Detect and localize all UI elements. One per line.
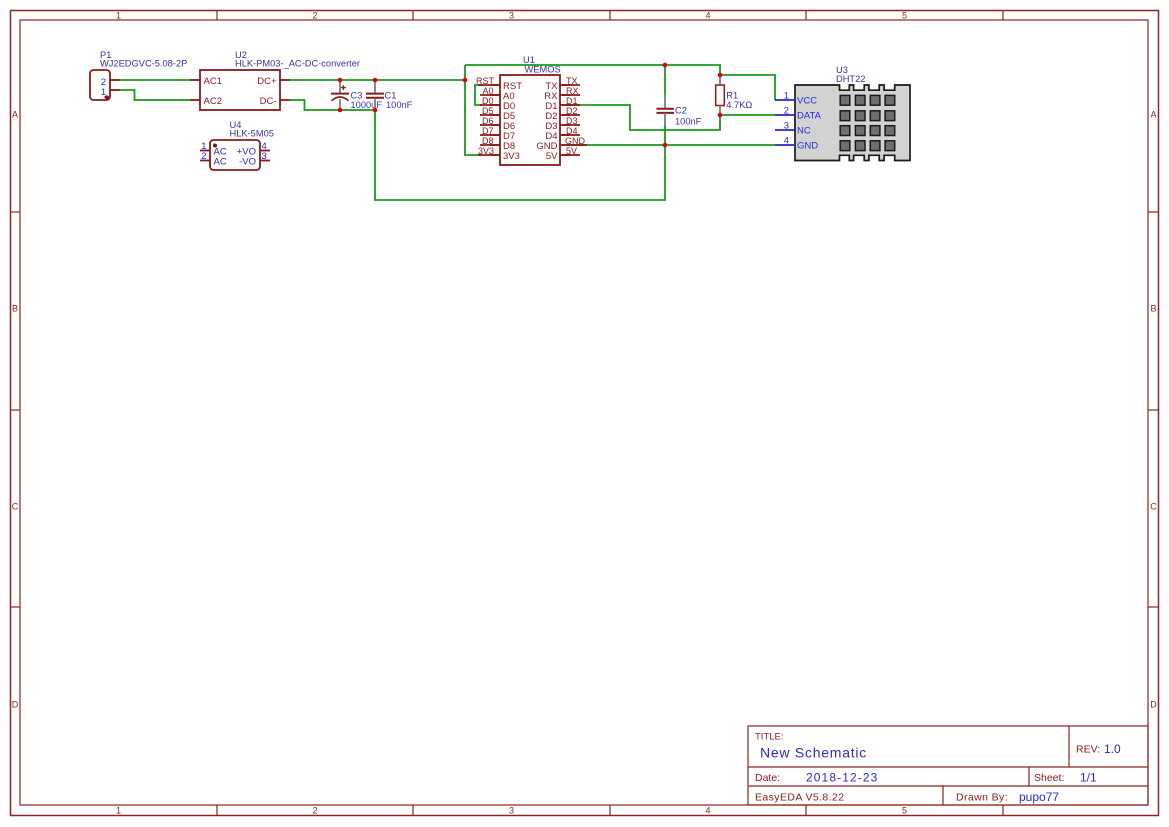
svg-text:DC+: DC+ [257, 76, 277, 87]
svg-text:5: 5 [902, 806, 907, 816]
svg-text:NC: NC [797, 126, 811, 137]
capacitor C3 (polarized) [331, 81, 382, 110]
C1 plate 2 [366, 97, 384, 99]
net label D1 [562, 96, 580, 106]
svg-text:1000uF: 1000uF [351, 100, 383, 110]
net label D2 [562, 106, 580, 116]
svg-text:2: 2 [312, 806, 317, 816]
wire U1.RST to U1.D0 [475, 85, 482, 105]
svg-text:4: 4 [705, 806, 710, 816]
net label TX [562, 76, 580, 86]
svg-text:5V: 5V [546, 151, 558, 162]
JUNCTIONS [338, 63, 723, 148]
pin DC- stub [280, 99, 290, 101]
C3 top plate [331, 93, 349, 95]
net label D8 [480, 136, 500, 146]
svg-text:Sheet:: Sheet: [1034, 772, 1064, 784]
sensor U3 DHT22 [775, 65, 910, 161]
net label RST [476, 76, 500, 86]
C2 plate 1 [657, 108, 675, 110]
U3 body with castellated edges [795, 85, 910, 161]
pin 2 stub P1 [110, 79, 120, 81]
WIRES [120, 65, 775, 200]
R1 top lead [719, 76, 721, 85]
C1 plate 1 [366, 93, 384, 95]
svg-text:3: 3 [509, 10, 514, 20]
C3 bottom lead [339, 99, 341, 109]
svg-text:AC1: AC1 [204, 76, 222, 87]
svg-text:EasyEDA V5.8.22: EasyEDA V5.8.22 [755, 792, 844, 804]
svg-text:Drawn By:: Drawn By: [956, 792, 1008, 804]
svg-text:3: 3 [784, 121, 789, 132]
svg-text:5: 5 [902, 10, 907, 20]
junction DC-/C1 bottom [373, 108, 378, 113]
pin 3 stub NC [775, 129, 795, 131]
svg-text:B: B [12, 304, 18, 314]
net label D7 [480, 126, 500, 136]
svg-text:AC: AC [214, 157, 227, 168]
wire U1.D1 to R1 bottom [570, 105, 720, 130]
junction DC+/5V vertical [463, 78, 468, 83]
net label 3V3 [478, 146, 500, 156]
net label D4 [562, 126, 580, 136]
svg-text:D: D [1150, 700, 1157, 710]
C2 bottom lead [664, 113, 666, 125]
net label A0 [480, 86, 500, 96]
junction GND rail / C2 bottom [663, 143, 668, 148]
C1 top lead [374, 81, 376, 93]
net label D0 [480, 96, 500, 106]
AC-DC converter U2 [190, 50, 360, 110]
junction R1 top / VCC tap [718, 73, 723, 78]
svg-text:A: A [1150, 110, 1156, 120]
svg-text:AC2: AC2 [204, 96, 222, 107]
svg-text:100nF: 100nF [675, 117, 702, 127]
P1 polarity dot [104, 95, 109, 99]
svg-text:C: C [1150, 502, 1157, 512]
right pin stubs TX RX D1 D2 D3 D4 GND 5V [560, 85, 570, 155]
svg-text:1: 1 [116, 10, 121, 20]
svg-text:Date:: Date: [755, 772, 780, 784]
C3 curved plate [332, 97, 349, 101]
wire U1.GND to U3.GND [570, 144, 775, 146]
wire C1 bottom to GND rail [375, 110, 665, 200]
pin AC2 stub [190, 99, 200, 101]
svg-text:DC-: DC- [260, 96, 277, 107]
wire top 5V rail to R1 [465, 65, 720, 75]
svg-text:D: D [12, 700, 19, 710]
net label D3 [562, 116, 580, 126]
wire P1.2 to U2.AC1 [120, 79, 190, 81]
svg-text:pupo77: pupo77 [1019, 790, 1059, 804]
wire U2.DC- to C3/C1 bottom [290, 100, 375, 110]
svg-text:1.0: 1.0 [1104, 742, 1121, 756]
C3 plus sign [341, 85, 346, 90]
wire U2.DC+ to C3/C1/5V rail [290, 79, 465, 81]
pin 3 stub U4 [260, 160, 270, 162]
svg-text:DATA: DATA [797, 111, 822, 122]
net label D5 [480, 106, 500, 116]
junction R1 bottom / DATA tap [718, 113, 723, 118]
svg-text:C: C [12, 502, 19, 512]
U4 pin1 dot [213, 144, 217, 148]
svg-text:4: 4 [705, 10, 710, 20]
svg-text:4: 4 [784, 136, 789, 147]
svg-text:WJ2EDGVC-5.08-2P: WJ2EDGVC-5.08-2P [100, 59, 187, 69]
C2 plate 2 [657, 112, 675, 114]
wire R1 bottom to U3.DATA [720, 114, 775, 116]
wire C2 vertical top [664, 65, 666, 95]
svg-text:2: 2 [784, 106, 789, 117]
junction DC+/C1 [373, 78, 378, 83]
svg-text:New Schematic: New Schematic [760, 745, 867, 761]
svg-text:WEMOS: WEMOS [525, 65, 561, 75]
junction DC+/C3 [338, 78, 343, 83]
junction DC-/C3 bottom [338, 108, 343, 113]
wire C2 vertical bottom [664, 125, 666, 145]
svg-text:VCC: VCC [797, 96, 817, 107]
svg-text:GND: GND [797, 141, 818, 152]
pin 1 stub U4 [200, 150, 210, 152]
pin 1 stub VCC [775, 99, 795, 101]
svg-text:1: 1 [784, 91, 789, 102]
pin 2 stub U4 [200, 160, 210, 162]
svg-text:-VO: -VO [239, 157, 256, 168]
R1 bottom lead [719, 106, 721, 115]
svg-text:100nF: 100nF [386, 100, 413, 110]
AC-DC module U4 [200, 120, 274, 170]
svg-text:2018-12-23: 2018-12-23 [806, 771, 878, 785]
svg-text:REV:: REV: [1076, 744, 1100, 756]
svg-text:3V3: 3V3 [503, 151, 520, 162]
svg-text:2: 2 [312, 10, 317, 20]
svg-text:U1: U1 [523, 55, 535, 65]
pin DC+ stub [280, 79, 290, 81]
net label RX [562, 86, 580, 96]
svg-text:2: 2 [201, 151, 206, 162]
svg-text:B: B [1150, 304, 1156, 314]
U3 grid squares [840, 95, 894, 150]
wire 5V vertical at x465 to 3V3 [465, 65, 481, 155]
R1 body [716, 85, 725, 106]
capacitor C2 [657, 95, 702, 127]
connector P1 [90, 50, 187, 100]
svg-text:C3: C3 [351, 90, 363, 100]
svg-text:3: 3 [509, 806, 514, 816]
svg-text:TITLE:: TITLE: [755, 732, 784, 743]
svg-text:1/1: 1/1 [1080, 771, 1097, 785]
svg-text:4.7KΩ: 4.7KΩ [726, 100, 752, 110]
svg-text:HLK-5M05: HLK-5M05 [230, 129, 274, 139]
capacitor C1 [366, 81, 413, 110]
pin 2 stub DATA [775, 114, 795, 116]
pin AC1 stub [190, 79, 200, 81]
C2 top lead [664, 95, 666, 108]
svg-text:3: 3 [262, 151, 267, 162]
junction 5V rail/C2 top [663, 63, 668, 68]
pin 4 stub GND [775, 144, 795, 146]
svg-text:1: 1 [116, 806, 121, 816]
svg-text:C2: C2 [675, 105, 687, 115]
MCU U1 WEMOS [490, 55, 570, 165]
svg-text:A: A [12, 110, 18, 120]
C1 bottom lead [374, 98, 376, 109]
pin 4 stub U4 [260, 150, 270, 152]
resistor R1 [716, 76, 753, 114]
title block [748, 726, 1148, 805]
pin 1 stub P1 [110, 89, 120, 91]
net label D6 [480, 116, 500, 126]
svg-text:DHT22: DHT22 [836, 74, 865, 84]
left pin stubs RST A0 D0 D5 D6 D7 D8 3V3 [490, 85, 500, 155]
net label 5V [562, 146, 580, 156]
svg-text:C1: C1 [385, 90, 397, 100]
net label GND [562, 136, 587, 146]
wire R1 top to U3.VCC [720, 75, 775, 100]
wire P1.1 to U2.AC2 [120, 90, 190, 100]
svg-text:HLK-PM03-_AC-DC-converter: HLK-PM03-_AC-DC-converter [235, 59, 360, 69]
C3 top lead [339, 81, 341, 93]
